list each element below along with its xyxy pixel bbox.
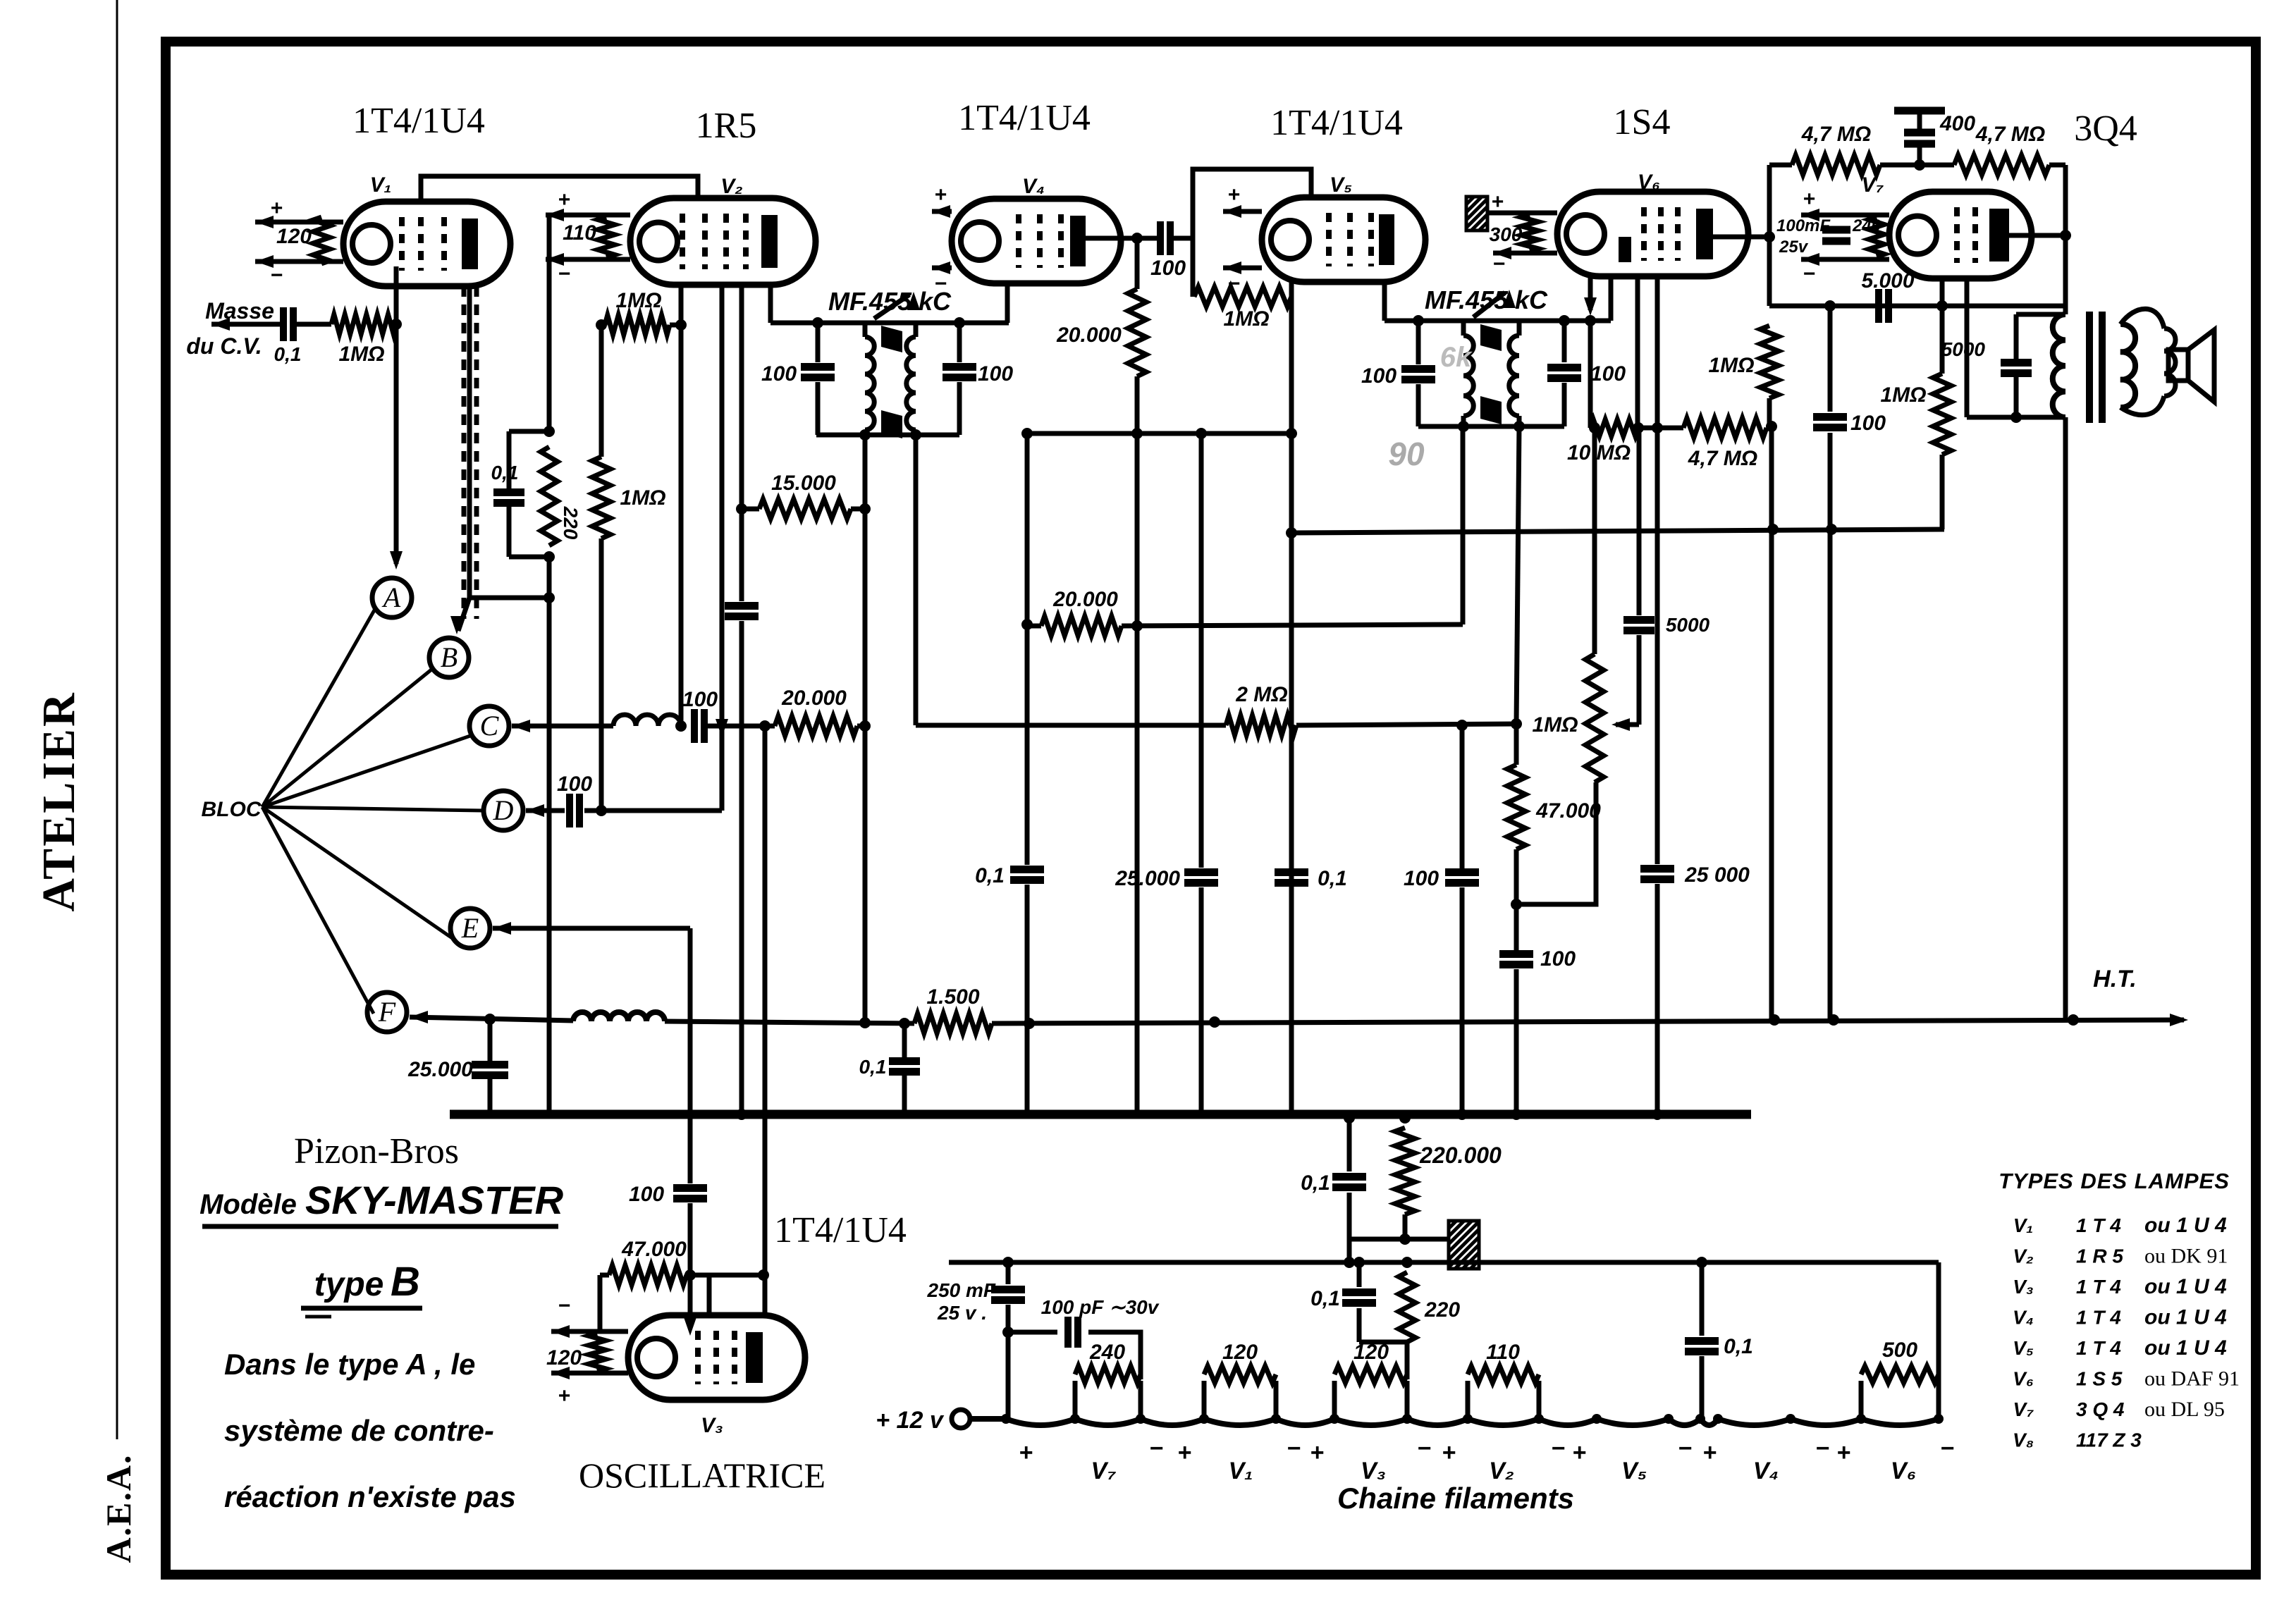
node — [1633, 422, 1644, 433]
svg-text:300: 300 — [1490, 223, 1523, 245]
svg-text:1T4/1U4: 1T4/1U4 — [774, 1210, 907, 1250]
resistor 1MΩ (V7 grid) — [1760, 326, 1779, 398]
svg-text:ou 1 U 4: ou 1 U 4 — [2144, 1306, 2227, 1329]
resistor 300 (V6 filament) — [1521, 215, 1538, 251]
capacitor 100 (D line) — [566, 794, 573, 827]
svg-text:ou 1 U 4: ou 1 U 4 — [2144, 1214, 2227, 1237]
node — [859, 429, 871, 441]
svg-text:100 pF ∼30v: 100 pF ∼30v — [1041, 1296, 1160, 1318]
node — [1585, 315, 1596, 326]
wire V6 pin4 — [1655, 276, 1660, 428]
capacitor 100 (osc coupling) — [691, 709, 698, 743]
wire V3 plate line — [763, 726, 768, 1312]
svg-text:100: 100 — [1540, 947, 1576, 971]
V5 filament + lead — [1223, 209, 1262, 214]
svg-text:0,1: 0,1 — [1301, 1171, 1330, 1195]
wire MF1 secondary to AVC — [914, 435, 919, 725]
node — [684, 1269, 696, 1281]
arrow into B — [458, 598, 469, 631]
svg-text:V₇: V₇ — [2013, 1398, 2034, 1420]
svg-text:B: B — [441, 641, 458, 673]
wire rail end down — [1936, 1262, 1941, 1419]
svg-text:V₆: V₆ — [1638, 171, 1660, 194]
wire box bottom — [1769, 304, 2065, 309]
svg-text:Dans le type A , le: Dans le type A , le — [224, 1348, 475, 1381]
wire diode load — [1588, 321, 1593, 428]
wire D line — [584, 808, 722, 813]
capacitor 250mF 25v — [1006, 1262, 1011, 1284]
svg-text:400: 400 — [1939, 112, 1975, 135]
svg-text:+: + — [1491, 190, 1504, 214]
node — [1589, 422, 1600, 433]
wire B+ branch — [1291, 529, 1944, 533]
svg-text:1 T 4: 1 T 4 — [2076, 1276, 2121, 1298]
svg-text:47.000: 47.000 — [621, 1238, 687, 1261]
wire — [1296, 724, 1516, 725]
svg-text:220: 220 — [560, 506, 582, 540]
svg-text:220.000: 220.000 — [1419, 1143, 1502, 1168]
wire V6 diode pin — [1588, 276, 1593, 310]
V3 filament - lead — [551, 1329, 628, 1334]
wire to chassis — [1349, 1237, 1449, 1242]
capacitor 0,1 — [1010, 866, 1044, 873]
bloc fan wire — [262, 736, 470, 807]
svg-text:0,1: 0,1 — [491, 462, 519, 484]
svg-text:H.T.: H.T. — [2093, 966, 2137, 992]
capacitor 100mF 25v — [1822, 226, 1850, 234]
svg-text:1MΩ: 1MΩ — [338, 343, 384, 366]
node — [544, 592, 555, 603]
node — [1764, 231, 1775, 242]
output transformer secondary — [2120, 324, 2135, 407]
wire V7 pin2 — [1965, 278, 1970, 417]
wire — [1088, 1332, 1141, 1379]
svg-text:+: + — [1803, 187, 1815, 211]
capacitor 100 — [1460, 725, 1465, 868]
wire HT line — [665, 1021, 914, 1023]
capacitor 100 (series) — [725, 602, 759, 610]
MF1 core — [881, 326, 902, 352]
wire 100pF loop — [1008, 1330, 1057, 1335]
V1 filament - lead — [255, 259, 343, 264]
wire 220 branch from + lead — [547, 215, 552, 431]
capacitor 5000 — [1637, 428, 1642, 615]
svg-text:220: 220 — [1424, 1298, 1460, 1322]
V1 filament + lead — [255, 220, 343, 225]
svg-text:réaction n'existe pas: réaction n'existe pas — [224, 1480, 516, 1513]
svg-text:+: + — [1702, 1439, 1717, 1466]
svg-text:V₇: V₇ — [1091, 1458, 1116, 1484]
svg-text:6k: 6k — [1440, 342, 1473, 373]
svg-text:V₄: V₄ — [2013, 1307, 2034, 1329]
svg-text:+: + — [1177, 1439, 1191, 1466]
node on bus — [736, 1109, 747, 1120]
coil (oscillator padding) — [613, 715, 681, 726]
svg-text:V₄: V₄ — [1753, 1458, 1779, 1484]
wire masse — [211, 322, 281, 327]
wire 220 line down to bus — [547, 557, 552, 1114]
svg-text:−: − — [1492, 252, 1505, 276]
page margin rule — [116, 0, 118, 1439]
resistor 220 (V3 fil) — [1399, 1272, 1416, 1342]
bloc fan wire — [262, 807, 374, 1014]
svg-text:240: 240 — [1852, 216, 1881, 235]
node — [1021, 619, 1033, 630]
svg-text:ou 1 U 4: ou 1 U 4 — [2144, 1336, 2227, 1360]
node — [1511, 899, 1522, 910]
svg-text:−: − — [934, 272, 947, 295]
svg-text:1T4/1U4: 1T4/1U4 — [958, 98, 1091, 138]
node — [1021, 428, 1033, 439]
tube V2 — [630, 198, 816, 285]
wire — [1027, 624, 1041, 629]
svg-text:110: 110 — [563, 221, 596, 245]
wire — [739, 509, 744, 601]
wire HT line to arrow — [992, 1020, 2184, 1023]
wire 615 link — [1027, 431, 1291, 436]
transformer core — [2086, 312, 2093, 423]
node — [1824, 300, 1836, 312]
svg-text:V₃: V₃ — [701, 1414, 723, 1437]
svg-text:1MΩ: 1MΩ — [620, 486, 665, 510]
node — [1458, 421, 1469, 432]
capacitor 0,1 (V2 osc grid) — [493, 488, 524, 496]
capacitor 5000 (speaker) — [2014, 314, 2019, 359]
resistor 4,7MΩ (feedback 2) — [1954, 155, 2049, 175]
resistor 110 (V2 filament) — [598, 217, 615, 257]
svg-text:V₇: V₇ — [1862, 173, 1884, 197]
svg-text:1MΩ: 1MΩ — [1880, 383, 1926, 407]
wire 1MΩ vertical line — [599, 325, 604, 457]
svg-text:V₁: V₁ — [2013, 1214, 2034, 1236]
svg-text:1 S 5: 1 S 5 — [2076, 1368, 2123, 1390]
capacitor 100 (MF2 secondary) — [1562, 321, 1567, 362]
wire — [708, 724, 775, 729]
wire — [688, 1203, 693, 1312]
svg-text:1MΩ: 1MΩ — [1532, 713, 1578, 737]
wire V7 pin1 — [1940, 278, 1945, 374]
svg-text:−: − — [1287, 1435, 1301, 1462]
capacitor 100 (V4-V5 coupling) — [1157, 221, 1164, 255]
svg-text:+: + — [1019, 1439, 1033, 1466]
svg-text:+: + — [558, 1384, 570, 1408]
tube V5 — [1262, 197, 1425, 282]
svg-text:MF.455 kC: MF.455 kC — [828, 287, 952, 316]
V5 grid loop — [1193, 169, 1311, 297]
resistor 20.000 (IF screen feed) — [1041, 616, 1122, 636]
node on bus — [1652, 1109, 1663, 1120]
svg-text:0,1: 0,1 — [274, 343, 302, 365]
output transformer primary — [2053, 314, 2065, 417]
svg-text:−: − — [1227, 272, 1240, 295]
svg-text:B: B — [391, 1259, 420, 1305]
MF2 secondary coil — [1517, 321, 1522, 336]
node — [484, 1014, 496, 1025]
MF2 top wire — [1385, 319, 1611, 324]
node — [1131, 428, 1143, 439]
tube V1 — [343, 202, 510, 286]
resistor 10MΩ (diode load) — [1590, 419, 1638, 436]
wire V6 pin3 — [1635, 276, 1640, 428]
svg-text:+: + — [1310, 1439, 1324, 1466]
svg-text:SKY-MASTER: SKY-MASTER — [305, 1178, 564, 1222]
svg-text:V₂: V₂ — [1489, 1458, 1514, 1484]
svg-text:V₆: V₆ — [2013, 1368, 2034, 1390]
filament rail — [949, 1260, 1939, 1265]
svg-text:4,7 MΩ: 4,7 MΩ — [1975, 123, 2045, 146]
svg-text:V₈: V₈ — [2013, 1429, 2034, 1451]
V7 filament - lead — [1801, 257, 1889, 262]
svg-text:−: − — [1815, 1435, 1829, 1462]
node — [544, 426, 555, 437]
svg-text:+: + — [270, 197, 283, 220]
wire — [1199, 433, 1204, 868]
wire V2 pin to C tank — [679, 285, 684, 725]
svg-text:10 MΩ: 10 MΩ — [1567, 441, 1631, 464]
svg-text:25.000: 25.000 — [407, 1058, 473, 1081]
wire pot loop — [1516, 782, 1596, 904]
bloc fan wire — [262, 807, 484, 811]
wire into C — [512, 724, 613, 729]
wire into E — [493, 926, 690, 931]
node — [2010, 412, 2022, 423]
resistor 20.000 (V3 plate load) — [775, 716, 857, 736]
resistor 20.000 vertical (V4 screen) — [1135, 238, 1140, 289]
wire loop bottom — [509, 555, 551, 560]
node — [1131, 233, 1143, 244]
svg-text:+: + — [1227, 183, 1240, 207]
svg-text:V₄: V₄ — [1022, 175, 1045, 198]
wire V1 anode dashed pair — [462, 286, 467, 619]
capacitor 100pF-30v — [1064, 1317, 1072, 1348]
wire 47.000 loop — [600, 1273, 609, 1278]
bloc fan wire — [262, 670, 431, 807]
svg-text:120: 120 — [546, 1346, 582, 1370]
svg-text:100: 100 — [1590, 362, 1626, 386]
resistor 47.000 (AF) — [1514, 724, 1519, 765]
node — [1766, 421, 1777, 432]
svg-text:−: − — [558, 1294, 570, 1317]
svg-text:+: + — [558, 188, 570, 211]
node — [391, 319, 402, 330]
svg-text:0,1: 0,1 — [1310, 1287, 1340, 1310]
svg-text:100mF: 100mF — [1776, 216, 1831, 235]
svg-text:−: − — [270, 264, 283, 287]
capacitor 0,1 (masse du CV) — [280, 307, 287, 341]
wire down to D line — [599, 539, 604, 811]
capacitor 0,1 (HT) — [902, 1023, 907, 1057]
svg-text:0,1: 0,1 — [1318, 867, 1347, 890]
resistor 4,7MΩ (AF coupling) — [1683, 418, 1767, 438]
resistor 47.000 (osc grid leak) — [609, 1265, 687, 1285]
wire V2 anode to MF1 — [768, 285, 773, 323]
node — [859, 1017, 871, 1028]
tube V4 — [952, 199, 1121, 283]
svg-text:Masse: Masse — [205, 298, 274, 324]
svg-text:1MΩ: 1MΩ — [1708, 354, 1754, 377]
wiper arrow — [1616, 722, 1639, 727]
svg-text:Chaine filaments: Chaine filaments — [1337, 1482, 1574, 1515]
svg-text:+ 12 v: + 12 v — [876, 1407, 945, 1434]
svg-text:+: + — [1442, 1439, 1456, 1466]
MF2 primary coil — [1461, 321, 1466, 336]
svg-text:OSCILLATRICE: OSCILLATRICE — [579, 1456, 825, 1495]
ground (chassis) hatch — [1466, 197, 1487, 230]
svg-text:V₃: V₃ — [2013, 1276, 2034, 1298]
speaker — [2168, 350, 2188, 381]
wire V4 grid pin — [1005, 283, 1010, 323]
node — [1024, 1018, 1035, 1029]
svg-text:110: 110 — [1486, 1341, 1520, 1364]
wire — [1199, 887, 1204, 1114]
wire — [1025, 624, 1030, 865]
svg-text:Modèle: Modèle — [199, 1189, 297, 1220]
speaker voice coil — [2164, 328, 2175, 396]
svg-text:250 mF: 250 mF — [927, 1279, 996, 1301]
resistor 120 (V1 filament) — [313, 217, 330, 264]
resistor 220 (V2 osc grid leak) — [541, 447, 558, 546]
capacitor 400 (top) — [1894, 107, 1945, 115]
node — [859, 720, 871, 732]
terminal B — [429, 638, 469, 677]
MF1 top wire — [771, 321, 1009, 326]
wire — [1638, 426, 1683, 431]
wire primary top — [2016, 312, 2065, 317]
svg-text:1.500: 1.500 — [926, 985, 979, 1009]
svg-text:240: 240 — [1089, 1341, 1125, 1364]
wire plate supply down — [2063, 417, 2068, 1020]
svg-text:1 T 4: 1 T 4 — [2076, 1337, 2121, 1359]
wire down to bus — [739, 621, 744, 1114]
wire — [1940, 455, 1945, 529]
V6 filament + lead — [1487, 211, 1557, 216]
svg-text:20.000: 20.000 — [1052, 588, 1118, 611]
svg-text:25 v .: 25 v . — [937, 1302, 987, 1324]
svg-text:4,7 MΩ: 4,7 MΩ — [1688, 447, 1757, 470]
capacitor 5.000 (tone) — [1875, 289, 1882, 323]
capacitor 100 (MF1 secondary) — [957, 323, 962, 362]
resistor 240 (V7 chain) — [1073, 1381, 1078, 1419]
resistor 1.500 (HT dropper) — [914, 1014, 992, 1033]
svg-text:1 R 5: 1 R 5 — [2076, 1245, 2123, 1267]
svg-text:100: 100 — [1150, 257, 1186, 280]
node — [1456, 720, 1468, 731]
capacitor 25000 — [1655, 428, 1660, 864]
wire V1 filament down to A — [394, 266, 399, 564]
svg-text:système de contre-: système de contre- — [224, 1414, 494, 1447]
svg-text:1 T 4: 1 T 4 — [2076, 1307, 2121, 1329]
svg-text:ATELIER: ATELIER — [33, 691, 85, 911]
svg-text:E: E — [461, 912, 479, 944]
svg-text:du C.V.: du C.V. — [186, 333, 262, 359]
resistor 1MΩ (V5 grid) — [1194, 287, 1291, 307]
svg-text:V₅: V₅ — [2013, 1337, 2034, 1359]
node — [1002, 1257, 1014, 1268]
node — [544, 551, 555, 562]
wire — [507, 431, 512, 489]
node — [1767, 524, 1779, 535]
svg-text:+: + — [934, 183, 947, 207]
svg-text:20.000: 20.000 — [781, 687, 847, 710]
svg-text:1T4/1U4: 1T4/1U4 — [1270, 103, 1403, 143]
wire primary bottom — [1967, 415, 2065, 420]
capacitor 0,1 (V4 fil) — [1700, 1262, 1705, 1336]
node on bus — [1456, 1109, 1468, 1120]
svg-text:5000: 5000 — [1666, 614, 1710, 636]
resistor 1MΩ horizontal (V2 grid) — [601, 323, 605, 328]
svg-text:V₂: V₂ — [2013, 1245, 2033, 1267]
node bus crossing — [763, 1114, 764, 1115]
wire box left — [1767, 165, 1772, 306]
wire MF2 primary return — [1461, 426, 1466, 624]
svg-text:V₃: V₃ — [1361, 1458, 1386, 1484]
svg-text:1MΩ: 1MΩ — [615, 289, 661, 312]
resistor 1MΩ (V1 grid leak) — [331, 314, 396, 334]
MF1 bottom wire — [816, 433, 959, 438]
tube V3 — [628, 1315, 805, 1400]
wire V1 grid to V2 top — [421, 176, 698, 202]
MF2 bottom wire — [1418, 424, 1564, 429]
svg-text:20.000: 20.000 — [1056, 324, 1122, 347]
speaker lead bottom — [2120, 396, 2164, 415]
wire — [857, 724, 865, 729]
svg-text:25.000: 25.000 — [1115, 867, 1180, 890]
capacitor 100 (MF1 primary) — [816, 323, 821, 362]
node — [596, 805, 607, 816]
svg-text:5000: 5000 — [1941, 338, 1986, 360]
wire V2 pin to D line — [720, 285, 725, 811]
filament chain line — [970, 1419, 1939, 1425]
svg-text:+: + — [1836, 1439, 1850, 1466]
tube V7 — [1889, 192, 2032, 278]
svg-text:500: 500 — [1882, 1339, 1917, 1362]
svg-text:1MΩ: 1MΩ — [1223, 307, 1269, 331]
svg-text:3 Q 4: 3 Q 4 — [2076, 1398, 2125, 1420]
capacitor 100 — [1514, 904, 1519, 950]
wire — [1359, 1340, 1407, 1345]
svg-text:100: 100 — [1361, 364, 1396, 388]
wire — [296, 322, 331, 327]
svg-text:5.000: 5.000 — [1861, 269, 1914, 293]
resistor 110 (V2 chain) — [1466, 1381, 1471, 1419]
svg-text:2 MΩ: 2 MΩ — [1235, 683, 1287, 706]
svg-text:120: 120 — [1222, 1341, 1258, 1364]
wire V7 plate — [2009, 233, 2065, 238]
svg-text:ou DAF 91: ou DAF 91 — [2144, 1367, 2240, 1391]
svg-text:C: C — [480, 710, 500, 741]
wire — [1135, 376, 1140, 1114]
wire V1 anode — [467, 286, 472, 598]
svg-text:3Q4: 3Q4 — [2074, 109, 2137, 149]
capacitor 25.000 — [1184, 868, 1218, 876]
node — [675, 720, 687, 732]
wire — [1122, 624, 1463, 626]
svg-text:−: − — [1803, 262, 1815, 285]
svg-text:V₂: V₂ — [720, 175, 742, 198]
svg-text:0,1: 0,1 — [975, 864, 1005, 887]
svg-text:25 000: 25 000 — [1684, 863, 1750, 887]
svg-text:120: 120 — [1353, 1341, 1389, 1364]
svg-text:ou DL 95: ou DL 95 — [2144, 1398, 2225, 1421]
wire V5 cathode line — [1289, 282, 1294, 1114]
terminal A — [372, 578, 412, 617]
choke coil (HT feed) — [573, 1012, 665, 1021]
V3 filament + lead — [551, 1371, 628, 1376]
svg-text:+: + — [1572, 1439, 1586, 1466]
wire grid2 branch — [707, 1275, 712, 1315]
svg-text:−: − — [1940, 1435, 1954, 1462]
resistor 500 (V6 chain) — [1859, 1381, 1864, 1419]
